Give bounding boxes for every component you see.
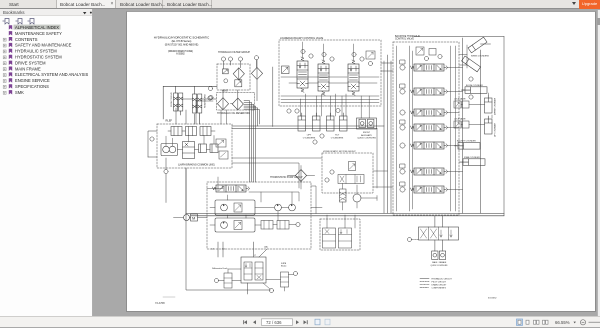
rear motor group box	[320, 219, 360, 250]
front auxiliary quick coupler block	[357, 118, 377, 129]
reservoir filter diamond	[217, 98, 228, 110]
pump block P1	[215, 200, 255, 215]
svg-text:MALE: MALE	[432, 261, 438, 264]
svg-text:(S/N 5732Y 001 AND ABOVE): (S/N 5732Y 001 AND ABOVE)	[165, 44, 199, 47]
swing cylinder upper (diagonal)	[468, 37, 487, 53]
revision mark	[163, 296, 175, 298]
wire: backhoe trunk lines	[397, 46, 456, 211]
wire: brake box to bus	[166, 158, 186, 214]
node circled 7	[150, 137, 154, 141]
svg-text:66.55%: 66.55%	[555, 320, 570, 325]
node circled J2	[469, 95, 473, 99]
svg-text:Brake: Brake	[281, 265, 287, 268]
svg-text:LIFT: LIFT	[307, 135, 312, 137]
wire: filter feeds	[224, 60, 257, 69]
lift cylinder R	[313, 113, 321, 131]
svg-text:QUICK COUPLERS: QUICK COUPLERS	[431, 265, 449, 267]
svg-text:(LH/RH BRAKING-COMMON LINE): (LH/RH BRAKING-COMMON LINE)	[178, 164, 215, 167]
pump P2 right servo	[234, 221, 242, 230]
wire: loader internal galleries	[281, 42, 379, 103]
oil cooler pair A	[174, 86, 183, 115]
wire bundle: reservoir to pump group (nested corners)	[244, 101, 260, 182]
wire: return line from loader valve	[272, 67, 274, 127]
wire: swing cylinder manifold	[459, 45, 467, 68]
wire: breather drop	[256, 60, 258, 101]
coupler F2	[368, 119, 374, 127]
svg-text:LAC: LAC	[264, 246, 269, 249]
svg-text:PILOT CIRCUIT: PILOT CIRCUIT	[432, 282, 447, 284]
svg-text:FEMALE: FEMALE	[439, 261, 447, 264]
node circled J1	[469, 77, 473, 81]
relief valve R2	[400, 84, 405, 94]
svg-text:AUXILIARY: AUXILIARY	[361, 134, 372, 137]
brake solenoid circle	[293, 271, 297, 275]
boom lift cylinder (vertical)	[485, 116, 493, 134]
svg-text:RLEF: RLEF	[166, 119, 173, 123]
boom cylinder	[462, 87, 488, 94]
svg-text:ENGINE SERVICE: ENGINE SERVICE	[15, 78, 50, 83]
pilot valve block	[261, 221, 289, 230]
node circled 5	[208, 86, 212, 90]
svg-text:SMK: SMK	[15, 89, 24, 94]
relief valve R3	[400, 110, 405, 115]
servo M box	[191, 214, 198, 221]
brake pump pair	[161, 144, 178, 156]
loader spool S3 (aux)	[348, 60, 359, 95]
node circled B0	[424, 56, 428, 60]
lock valve LV1	[454, 101, 469, 108]
svg-text:MAIN FRAME: MAIN FRAME	[15, 66, 41, 71]
relief valve square	[235, 80, 242, 87]
backhoe spool row 4 (swing)	[411, 124, 448, 131]
wire: drain diagonal	[263, 283, 270, 289]
label rear couplers	[431, 261, 449, 267]
svg-text:CONTROL VALVE: CONTROL VALVE	[395, 38, 414, 41]
label lift cylinders	[303, 135, 316, 140]
rear aux valve assembly	[419, 227, 459, 240]
svg-text:SJPB: SJPB	[281, 263, 287, 265]
wire: brake internals	[166, 136, 214, 150]
node circled 6	[209, 95, 213, 99]
label tilt cylinders	[331, 135, 344, 140]
svg-text:6724352: 6724352	[488, 298, 497, 300]
svg-text:SWING CYLINDERS: SWING CYLINDERS	[471, 56, 489, 58]
svg-text:LOCK VALVE: LOCK VALVE	[454, 98, 466, 101]
svg-text:TILT: TILT	[335, 135, 340, 137]
reservoir strainer diamond	[232, 98, 243, 110]
manifold spool B	[255, 262, 263, 280]
wire: servo link	[174, 217, 208, 219]
flush filter (hatched)	[340, 189, 347, 202]
loader/auxiliary control valve box	[279, 40, 381, 106]
pump P1 left	[221, 204, 228, 211]
svg-text:FRONT: FRONT	[363, 132, 371, 134]
brake shuttle block	[216, 139, 226, 147]
rear coupler female	[439, 251, 445, 259]
loader relief valve	[282, 66, 290, 74]
oil cooler pair B	[193, 86, 202, 124]
loader spool S2 (tilt)	[318, 60, 329, 95]
pilot cap circle S3a	[352, 52, 356, 56]
brake valve B1	[168, 127, 185, 136]
svg-text:LOADER/AUXILIARY CONTROL VALVE: LOADER/AUXILIARY CONTROL VALVE	[280, 37, 324, 40]
wire: rear group risers	[327, 215, 355, 228]
wire: pump group to backhoe interconnect	[311, 129, 393, 214]
svg-text:LOCK VALVE: LOCK VALVE	[454, 118, 466, 121]
node circled 3	[238, 57, 242, 61]
pilot cap circle S1a	[301, 49, 305, 53]
wire: right riser B	[480, 50, 482, 213]
wire: diff lock link	[219, 269, 241, 281]
wire: pump to diff-lock manifold	[218, 242, 267, 294]
node circled S4	[368, 61, 372, 65]
wire: cooler diamond taps	[287, 166, 314, 190]
wire: cylinder feeds	[458, 90, 492, 162]
wire: brake box to motor group pair	[232, 158, 322, 188]
stabilizer cylinder	[460, 159, 486, 166]
label SJPB	[281, 263, 287, 268]
charge relief valve (top spool)	[213, 185, 250, 192]
wire: brake valve link	[266, 275, 293, 292]
node circled T2	[295, 109, 299, 113]
wire: cooler feed lines	[163, 86, 217, 119]
schematic SVG	[126, 11, 596, 312]
check valve circle	[296, 222, 300, 226]
backhoe spool row 3 (bucket)	[411, 109, 448, 116]
wire: reservoir internals	[223, 90, 238, 110]
svg-text:HYDRAULIC/HYDROSTATIC SCHEMATI: HYDRAULIC/HYDROSTATIC SCHEMATIC	[154, 36, 209, 40]
gauge circle	[224, 79, 228, 83]
gauge circle M2	[325, 178, 329, 182]
rear motor spool A	[323, 228, 336, 248]
wire: pump internals	[207, 177, 299, 225]
canvas + page	[94, 10, 600, 316]
hydraulic oil reservoir box	[217, 93, 255, 110]
svg-text:MAINTENANCE SAFETY: MAINTENANCE SAFETY	[15, 30, 62, 35]
legend row 1 hydraulic circuit	[420, 278, 429, 280]
brake control box (LH/RH)	[157, 124, 232, 168]
manifold spool A	[244, 262, 252, 280]
brake master valve	[183, 142, 195, 159]
filter bypass block	[223, 69, 229, 74]
svg-text:COMPONENTS: COMPONENTS	[432, 288, 447, 290]
pilot cap circle S2b	[330, 57, 334, 61]
node circled 9	[164, 169, 168, 173]
hydraulic filter group box	[217, 64, 250, 90]
dipper cylinder (vertical)	[485, 95, 493, 113]
hydrostatic pump group box	[207, 182, 311, 249]
svg-text:6-55082: 6-55082	[176, 53, 185, 55]
gear pump G1	[275, 204, 282, 211]
node circled 1	[221, 57, 225, 61]
relief valve R1	[400, 60, 405, 70]
wire: reservoir drains to brake circuit	[196, 101, 227, 124]
node circled 2	[228, 57, 232, 61]
backhoe valve label	[395, 35, 420, 41]
diff lock solenoid circle	[214, 278, 218, 282]
main return bus (double)	[186, 214, 504, 216]
svg-text:HYDROSTATIC SYSTEM: HYDROSTATIC SYSTEM	[15, 54, 62, 59]
brake cylinder small L	[199, 144, 207, 153]
right scrollbar	[597, 10, 600, 316]
pilot cap circle S2a	[322, 52, 326, 56]
motor spool	[338, 175, 364, 184]
wire: valve interconnect verticals	[381, 55, 393, 213]
svg-text:SPECIFICATIONS: SPECIFICATIONS	[15, 84, 49, 89]
wire: backhoe row taps	[447, 68, 463, 190]
svg-text:LIFT CYLINDER: LIFT CYLINDER	[495, 122, 497, 137]
wire: rear aux risers	[435, 216, 443, 251]
wire: loader to cylinders	[301, 94, 370, 118]
aux section block (top right of loader valve)	[366, 51, 375, 59]
backhoe spool row 1 (boom)	[411, 64, 448, 71]
backhoe spool row 2 (dipper)	[411, 88, 448, 95]
svg-text:HYDRAULIC FILTER GROUP: HYDRAULIC FILTER GROUP	[218, 51, 250, 54]
brake check block	[219, 151, 228, 159]
svg-text:REAR/BRAKE: REAR/BRAKE	[204, 93, 207, 108]
pilot cap circle S1b	[309, 54, 313, 58]
svg-text:HYDROSTATIC MOTOR GROUP: HYDROSTATIC MOTOR GROUP	[323, 150, 356, 153]
hydrostatic motor group box	[322, 153, 373, 193]
node circled K	[269, 288, 273, 292]
node circled B0b	[438, 54, 442, 58]
svg-text:M: M	[192, 216, 195, 221]
gear pump G2	[289, 204, 296, 211]
gauge circle M1	[330, 170, 334, 174]
svg-text:SAFETY AND MAINTENANCE: SAFETY AND MAINTENANCE	[15, 42, 72, 47]
bucket cylinder	[455, 143, 481, 150]
wire: braking lines left	[148, 108, 200, 157]
node circled L1	[313, 140, 317, 144]
svg-text:STAB CYLINDER: STAB CYLINDER	[464, 156, 480, 159]
lock valve LV2	[454, 121, 469, 128]
backhoe spool row 7 (aux)	[411, 186, 448, 193]
coupler F1	[359, 119, 365, 127]
lift cylinder L	[298, 113, 306, 131]
brake apply valve	[281, 272, 289, 287]
diff lock valve	[224, 273, 232, 288]
node circled 4	[254, 56, 258, 60]
svg-text:CYLINDERS: CYLINDERS	[331, 137, 344, 139]
backhoe spool row 5 (stab L)	[411, 142, 448, 149]
brake valve B2	[186, 127, 197, 136]
oil cooler diamond (charge circuit)	[295, 170, 306, 182]
svg-text:P: P	[255, 255, 257, 257]
tilt cylinder L	[327, 113, 335, 131]
pump P2 left	[221, 222, 228, 229]
node circled T3	[336, 108, 340, 112]
svg-text:DRIVE SYSTEM: DRIVE SYSTEM	[15, 60, 46, 65]
relief valve R4	[400, 120, 405, 130]
svg-text:ALPHABETICAL INDEX: ALPHABETICAL INDEX	[15, 25, 59, 30]
pilot cap circle S3b	[360, 57, 364, 61]
brake valve B3	[200, 127, 215, 136]
pump P1 right servo	[234, 203, 242, 212]
loader spool S1 (lift)	[297, 57, 308, 92]
svg-text:BUCKET CYLINDER: BUCKET CYLINDER	[457, 141, 476, 143]
relief valve R7	[400, 182, 405, 192]
breather diamond F2	[251, 67, 262, 79]
page	[126, 11, 596, 312]
svg-text:72 A768: 72 A768	[155, 301, 165, 305]
filter element F1 (diamond)	[233, 68, 244, 80]
label front aux couplers	[357, 132, 376, 139]
tab bar	[0, 0, 600, 9]
wire: motor output	[343, 184, 377, 211]
title block	[154, 36, 209, 56]
svg-text:CYLINDERS: CYLINDERS	[303, 137, 316, 139]
wire: bus left drop	[186, 168, 270, 290]
tilt cylinder R	[340, 113, 348, 131]
backhoe inlet section	[416, 47, 436, 55]
backhoe spool row 6 (stab R)	[411, 168, 448, 175]
svg-text:HYDRAULIC SYSTEM: HYDRAULIC SYSTEM	[15, 48, 57, 53]
svg-text:ELECTRICAL SYSTEM AND ANALYSIS: ELECTRICAL SYSTEM AND ANALYSIS	[15, 72, 89, 77]
node circled T1	[287, 109, 291, 113]
legend row 4 components	[420, 287, 429, 289]
relief valve R5	[400, 143, 405, 148]
svg-text:CONTENTS: CONTENTS	[15, 36, 38, 41]
svg-text:DIPPER CYLINDER: DIPPER CYLINDER	[495, 97, 497, 115]
svg-text:FRONT/DRIVE: FRONT/DRIVE	[171, 92, 173, 107]
status bar	[0, 316, 600, 327]
rear coupler male	[432, 251, 438, 259]
sidebar	[0, 9, 93, 316]
swing cylinder lower (diagonal)	[462, 56, 481, 72]
legend row 2 pilot circuit	[420, 281, 429, 283]
pump block P2	[215, 218, 255, 232]
shuttle valve (small)	[349, 162, 356, 171]
legend row 3 drain circuit	[420, 284, 429, 286]
servo M circle	[184, 215, 190, 221]
wire: solenoid dash link	[412, 239, 419, 241]
drive motor circle	[353, 194, 361, 202]
brake cylinder small R	[210, 144, 218, 153]
node circled L2	[320, 134, 324, 138]
svg-text:Differential Lock: Differential Lock	[212, 267, 229, 270]
rear motor spool B	[339, 228, 352, 248]
backhoe hydraulic control valve box	[393, 42, 459, 215]
svg-text:BOOM CYLINDER: BOOM CYLINDER	[466, 85, 483, 87]
rear aux solenoid circle	[407, 237, 411, 241]
svg-text:QUICK COUPLERS: QUICK COUPLERS	[357, 138, 376, 140]
wire: right riser A	[462, 38, 464, 213]
svg-text:HYDRAULIC OIL RESERVOIR: HYDRAULIC OIL RESERVOIR	[217, 112, 250, 115]
diff lock manifold block	[241, 257, 266, 283]
relief valve R6	[400, 164, 405, 174]
node circled 8	[208, 96, 212, 100]
wire: main horizontal pair to motor group	[232, 126, 384, 129]
svg-text:HYDRAULIC CIRCUIT: HYDRAULIC CIRCUIT	[432, 278, 453, 281]
svg-text:DRAIN CIRCUIT: DRAIN CIRCUIT	[432, 284, 448, 287]
svg-text:72 / 636: 72 / 636	[266, 320, 282, 325]
wire: far right return riser	[414, 37, 504, 216]
